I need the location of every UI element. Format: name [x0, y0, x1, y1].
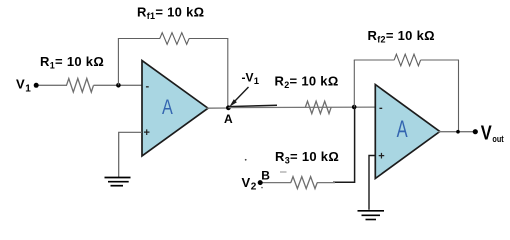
- node A dot: [226, 105, 231, 110]
- arrow to node A: [233, 87, 249, 103]
- ground (left): [105, 178, 131, 186]
- svg-text:Rf1= 10 kΩ: Rf1= 10 kΩ: [137, 4, 204, 21]
- svg-text:R1= 10 kΩ: R1= 10 kΩ: [40, 54, 104, 71]
- wire: U1 plus input to ground: [119, 132, 142, 177]
- wire: Rf2 top rail left: [354, 59, 395, 61]
- wire: V2 to R3: [260, 182, 291, 184]
- svg-text:A: A: [224, 112, 233, 126]
- stray speck left of R3 label: [245, 159, 247, 161]
- svg-text:-: -: [146, 81, 150, 93]
- svg-text:R3= 10 kΩ: R3= 10 kΩ: [275, 149, 339, 166]
- svg-text:A: A: [162, 95, 173, 119]
- wire: node A to R2 (dark segment): [229, 105, 277, 106]
- node: junction feedback/input: [116, 83, 121, 88]
- wire: U2 output to Vout: [438, 131, 475, 133]
- wire: U1 output to node A: [207, 107, 229, 109]
- svg-text:V2: V2: [242, 175, 257, 193]
- terminal dot V2: [258, 180, 263, 185]
- node: U2 inverting input junction: [352, 105, 357, 110]
- svg-text:+: +: [144, 127, 150, 139]
- svg-text:-V1: -V1: [242, 71, 260, 88]
- svg-text:A: A: [397, 116, 408, 143]
- wire: node B riser (inverting node down to R3): [333, 107, 355, 182]
- wire: feedback right vertical to node A: [227, 39, 229, 108]
- op-amp U2: [375, 85, 440, 179]
- terminal dot V1: [34, 83, 39, 88]
- resistor R2: [305, 101, 331, 113]
- wire: Rf2 top rail right: [421, 59, 459, 61]
- resistor R3: [291, 177, 317, 189]
- op-amp U1: [142, 61, 208, 157]
- stray mark near B: [280, 171, 287, 173]
- resistor Rf1: [160, 33, 189, 45]
- svg-text:Rf2= 10 kΩ: Rf2= 10 kΩ: [368, 28, 435, 45]
- wire: R3 to node B riser: [317, 182, 335, 184]
- svg-text:Vout: Vout: [481, 122, 505, 145]
- svg-text:B: B: [261, 169, 270, 183]
- wire: Rf2 left vertical: [353, 60, 355, 107]
- wire: Rf2 right vertical to output: [458, 60, 460, 132]
- resistor R1: [67, 79, 94, 93]
- svg-text:R2= 10 kΩ: R2= 10 kΩ: [275, 74, 339, 91]
- node: output/feedback junction: [456, 130, 460, 134]
- wire: U2 plus input to ground: [369, 156, 375, 210]
- wire: feedback left vertical: [117, 39, 119, 86]
- svg-text:V1: V1: [16, 77, 31, 95]
- terminal dot Vout: [473, 129, 478, 134]
- wire: node A net to U2 inverting input: [228, 106, 375, 109]
- resistor Rf2: [394, 54, 420, 66]
- arrowhead: [229, 99, 237, 107]
- wire: V1 terminal to R1: [36, 84, 67, 86]
- svg-text:+: +: [378, 150, 384, 162]
- stray speck below V2 dot: [261, 187, 263, 189]
- ground (right): [358, 211, 385, 220]
- wire: R1 to inverting input node: [94, 84, 143, 86]
- wire: feedback top rail left: [118, 38, 160, 40]
- svg-text:-: -: [379, 102, 383, 114]
- wire: feedback top rail right: [189, 38, 228, 40]
